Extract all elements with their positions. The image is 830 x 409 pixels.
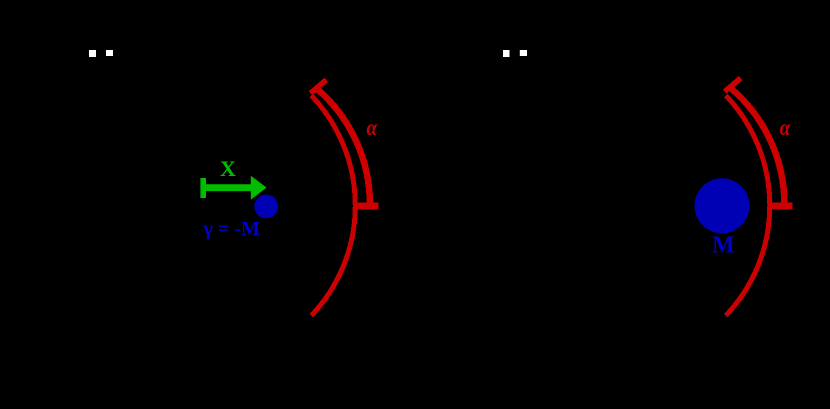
left panel: bottom end tick of annotation arc	[355, 203, 379, 210]
svg-text:X: X	[220, 156, 236, 181]
right panel: red annotation arc for angle alpha	[731, 88, 784, 204]
right panel: white double-dot, dot 1	[503, 50, 510, 57]
left panel: red annotation arc for angle alpha	[317, 88, 370, 204]
left panel: green arrow shaft	[201, 184, 253, 191]
left panel: green arrow tail cap	[200, 178, 206, 198]
right panel: red mirror arc (long outer arc)	[726, 96, 770, 316]
svg-text:M: M	[712, 232, 735, 258]
left panel: red mirror arc (long outer arc)	[311, 96, 355, 316]
right panel: top end cap of annotation arc	[725, 78, 741, 91]
svg-text:α: α	[780, 115, 792, 140]
svg-text:α: α	[366, 115, 378, 140]
left panel: white double-dot, dot 2	[106, 50, 113, 56]
svg-text:γ = -M: γ = -M	[203, 218, 260, 240]
left panel: white double-dot (accent of invisible x-double-dot), dot 1	[89, 50, 96, 57]
right panel: blue mass circle M	[695, 178, 750, 233]
left panel: top end cap of annotation arc	[311, 80, 327, 93]
left panel: blue mass circle	[254, 195, 278, 219]
left panel: green arrow head	[251, 176, 267, 200]
right panel: bottom end tick of annotation arc	[771, 203, 792, 210]
right panel: white double-dot, dot 2	[520, 50, 527, 56]
